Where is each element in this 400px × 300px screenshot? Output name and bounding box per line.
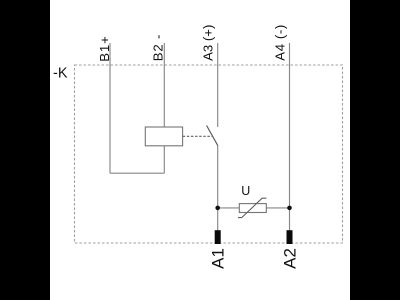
varistor U body — [239, 204, 266, 213]
relay coil K — [145, 127, 182, 146]
wire coil bottom return — [110, 172, 164, 174]
svg-text:A4 (-): A4 (-) — [273, 24, 288, 61]
svg-text:B1+: B1+ — [97, 35, 112, 62]
left letterbox bar — [0, 0, 50, 300]
terminal pin A2 — [287, 230, 293, 244]
svg-text:-K: -K — [53, 66, 68, 82]
svg-text:B2 -: B2 - — [151, 34, 166, 61]
varistor diagonal stroke — [238, 198, 266, 217]
right letterbox bar — [350, 0, 400, 300]
mechanical link dashed — [183, 135, 213, 137]
terminal pin A1 — [215, 230, 221, 244]
junction node at A1 branch — [215, 206, 220, 211]
wire contact to A1 pin — [217, 146, 219, 231]
svg-text:A2: A2 — [280, 248, 299, 269]
wire coil bottom lead — [163, 146, 165, 173]
wire varistor right — [266, 207, 289, 209]
svg-text:U: U — [241, 184, 250, 198]
junction node at A2 branch — [287, 206, 292, 211]
relay outline dashed enclosure -K — [75, 65, 343, 243]
NO contact arm — [207, 126, 218, 146]
wire A4 lead — [289, 43, 291, 230]
wire A3 lead — [217, 43, 219, 127]
svg-text:A3 (+): A3 (+) — [201, 25, 216, 61]
wire B1+ lead — [109, 43, 111, 173]
wire B2- lead — [163, 43, 165, 127]
svg-text:A1: A1 — [208, 248, 227, 269]
wire varistor left — [218, 207, 240, 209]
